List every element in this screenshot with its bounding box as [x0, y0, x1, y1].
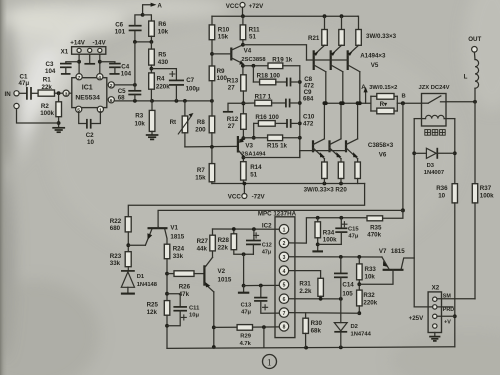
- IC2 pin 1: [279, 225, 288, 234]
- svg-text:R28: R28: [218, 237, 230, 244]
- wire R1 to pin3 node: [55, 91, 64, 95]
- resistor R20b: [338, 162, 344, 184]
- svg-text:R25: R25: [147, 301, 159, 308]
- transistor V6b: [330, 103, 342, 162]
- svg-text:C3858×3: C3858×3: [368, 142, 394, 149]
- wire DC-detect rail (V1 collector to node B column): [158, 210, 403, 227]
- svg-text:R19 1k: R19 1k: [272, 57, 293, 64]
- wire R16 left stub: [252, 123, 256, 139]
- svg-text:R31: R31: [299, 281, 311, 288]
- wire pin2 to C5/C6 column: [114, 83, 137, 87]
- svg-text:R4: R4: [157, 76, 165, 83]
- transistor V5b: [331, 45, 343, 103]
- capacitor C12: [246, 229, 272, 255]
- svg-text:V5: V5: [371, 62, 379, 69]
- svg-text:430: 430: [158, 59, 169, 66]
- capacitor C9: [286, 89, 314, 107]
- wire SM line to R37 column: [437, 298, 475, 300]
- svg-text:C15: C15: [348, 227, 359, 233]
- wire C1 to R1: [31, 92, 38, 94]
- stub bar left of R12: [223, 103, 244, 112]
- svg-text:D2: D2: [351, 324, 358, 330]
- svg-text:R21: R21: [308, 35, 320, 42]
- svg-text:33k: 33k: [173, 253, 184, 260]
- svg-text:10: 10: [438, 193, 445, 200]
- svg-text:C12: C12: [262, 242, 272, 248]
- svg-text:44k: 44k: [197, 246, 208, 253]
- svg-text:V3: V3: [245, 143, 253, 150]
- svg-text:C14: C14: [342, 281, 354, 288]
- svg-text:15k: 15k: [195, 174, 206, 181]
- ground below X2: [429, 333, 440, 341]
- label R20 3W/0.33x3: [304, 187, 348, 194]
- IC1 pin 7: [76, 74, 82, 81]
- svg-text:3W/0.15×2: 3W/0.15×2: [369, 85, 397, 91]
- wire overcurrent sense rail (R22 to -72V rail): [128, 184, 364, 217]
- svg-text:OUT: OUT: [468, 36, 481, 43]
- resistor R4: [149, 73, 171, 101]
- resistor R1: [38, 77, 54, 97]
- wire X1 pin3 to IC1 pin4 (-14V): [98, 54, 102, 74]
- relay switch contact: [422, 96, 447, 103]
- svg-text:5: 5: [283, 283, 286, 289]
- svg-text:R5: R5: [158, 52, 166, 59]
- svg-text:V6: V6: [379, 152, 387, 159]
- svg-text:R26: R26: [179, 284, 191, 291]
- capacitor C1: [19, 73, 32, 99]
- svg-text:-72V: -72V: [252, 193, 266, 200]
- svg-text:680: 680: [110, 225, 121, 232]
- capacitor C3: [45, 61, 79, 75]
- lower input terminal: [14, 103, 19, 108]
- wire IC2 pin6 line: [289, 297, 343, 301]
- svg-text:R24: R24: [173, 245, 185, 252]
- svg-text:22k: 22k: [42, 84, 53, 91]
- relay JZX DC24V box: [419, 85, 450, 126]
- svg-text:6: 6: [110, 98, 113, 104]
- IC2 pin 2: [279, 238, 288, 247]
- svg-text:R33: R33: [365, 266, 377, 273]
- svg-text:68k: 68k: [311, 327, 322, 334]
- resistor R26: [167, 271, 203, 298]
- wire IC2 pin1 line: [213, 227, 280, 231]
- wire IC2 pin4 line / R31 top: [289, 271, 321, 279]
- wire +72V rail: [212, 14, 358, 18]
- svg-text:10k: 10k: [365, 273, 376, 280]
- svg-text:12k: 12k: [147, 309, 158, 316]
- wire X1 pin1 to IC1 pin7 (+14V): [77, 54, 81, 74]
- svg-text:1015: 1015: [218, 277, 232, 284]
- svg-text:R32: R32: [363, 292, 375, 299]
- resistor R25: [147, 301, 170, 349]
- svg-text:51: 51: [250, 172, 257, 179]
- svg-text:470k: 470k: [367, 232, 381, 239]
- resistor R17: [243, 94, 286, 106]
- svg-text:220k: 220k: [363, 299, 377, 306]
- zener D2 1N4744: [334, 299, 371, 348]
- resistor R14: [241, 162, 263, 184]
- svg-text:R22: R22: [110, 218, 122, 225]
- OUT terminal: [468, 36, 481, 52]
- node A arrow on output rail: [361, 84, 397, 103]
- capacitor C2: [79, 112, 101, 146]
- svg-text:68: 68: [118, 95, 125, 102]
- capacitor C7: [169, 69, 200, 101]
- svg-text:IC1: IC1: [82, 85, 93, 92]
- svg-text:PRD: PRD: [443, 307, 454, 313]
- resistor R32: [357, 290, 378, 315]
- svg-text:R11: R11: [249, 26, 261, 33]
- IC IC2 uPC1237HA: [258, 210, 297, 337]
- svg-text:A: A: [361, 84, 366, 91]
- wire R* to node B and relay: [397, 93, 421, 105]
- svg-text:1: 1: [267, 358, 272, 368]
- ground below R3: [146, 135, 159, 139]
- wire C6/R6 bottom link: [133, 40, 153, 85]
- relay coil: [414, 115, 455, 118]
- resistor R3: [135, 101, 155, 135]
- resistor R29: [237, 325, 252, 348]
- svg-text:-14V: -14V: [93, 39, 107, 46]
- svg-text:R12: R12: [227, 116, 239, 123]
- svg-text:R1: R1: [43, 77, 51, 84]
- svg-text:2: 2: [283, 241, 286, 247]
- wire B column down to DC-sense rail: [383, 103, 405, 218]
- capacitor C14: [334, 257, 354, 299]
- diode D3 1N4007: [414, 148, 455, 176]
- transistor V6a C3858: [313, 103, 325, 162]
- svg-text:C7: C7: [186, 77, 194, 84]
- wire coil right column: [453, 119, 457, 184]
- resistor R10: [209, 16, 230, 66]
- resistor R27: [197, 229, 216, 253]
- svg-text:1N4148: 1N4148: [137, 282, 158, 288]
- resistor R19: [243, 57, 300, 69]
- svg-text:C10: C10: [303, 113, 315, 120]
- svg-text:JZX DC24V: JZX DC24V: [419, 85, 450, 91]
- transistor V5a A1494: [314, 45, 326, 103]
- svg-text:R37: R37: [480, 185, 492, 192]
- svg-text:8: 8: [283, 325, 286, 331]
- svg-text:R15 1k: R15 1k: [267, 142, 288, 149]
- wire R5-R4 junction: [150, 65, 177, 73]
- svg-text:472: 472: [303, 121, 314, 128]
- resistor R24: [164, 244, 184, 300]
- svg-text:+72V: +72V: [249, 3, 264, 10]
- svg-text:3W/0.33×3: 3W/0.33×3: [366, 33, 397, 40]
- resistor R16: [254, 114, 287, 126]
- svg-text:4: 4: [98, 75, 101, 81]
- svg-text:A: A: [157, 3, 162, 10]
- resistor R35: [367, 216, 383, 239]
- svg-text:B: B: [402, 93, 406, 99]
- svg-text:47μ: 47μ: [348, 233, 358, 239]
- svg-text:R23: R23: [110, 253, 122, 260]
- wire IC2 pin5 line: [244, 284, 280, 288]
- IC2 pin 7: [279, 308, 288, 317]
- transistor V1 1815: [128, 224, 184, 245]
- svg-text:22k: 22k: [218, 245, 229, 252]
- wire R13-R12 junction node: [241, 91, 245, 114]
- capacitor C6: [115, 15, 143, 42]
- svg-text:D3: D3: [427, 163, 435, 169]
- IC2 pin 8: [279, 322, 288, 331]
- resistor R8: [195, 116, 214, 147]
- page number symbol: [263, 355, 277, 369]
- resistor R23: [110, 252, 131, 271]
- wire +V line to R36 column: [437, 315, 455, 317]
- svg-text:V1: V1: [170, 224, 178, 231]
- svg-text:33k: 33k: [110, 260, 121, 267]
- label relay (CJK): [425, 130, 445, 136]
- wire IC2 pin8 line / R29: [214, 325, 280, 347]
- svg-text:IC2: IC2: [262, 222, 272, 229]
- svg-text:3: 3: [283, 255, 286, 261]
- resistor R22: [110, 217, 131, 252]
- svg-text:R13: R13: [227, 77, 239, 84]
- svg-text:105: 105: [342, 290, 353, 297]
- resistor R18: [253, 66, 286, 85]
- svg-text:10μ: 10μ: [189, 313, 199, 319]
- wire feedback bus pin6: [114, 99, 214, 103]
- svg-text:27: 27: [228, 123, 235, 130]
- svg-text:C2: C2: [86, 132, 94, 139]
- resistor R7: [195, 147, 214, 184]
- svg-text:R18 100: R18 100: [257, 73, 281, 80]
- svg-text:101: 101: [115, 28, 126, 35]
- transistor V5c: [348, 45, 360, 103]
- resistor R15: [243, 135, 299, 149]
- svg-text:C11: C11: [189, 305, 200, 311]
- IC1 pin 6: [108, 97, 114, 104]
- svg-text:R6: R6: [158, 21, 166, 28]
- wire relay contact to L column: [446, 100, 477, 104]
- svg-text:3W/0.33×3 R20: 3W/0.33×3 R20: [304, 187, 348, 194]
- svg-text:R16 100: R16 100: [255, 114, 279, 121]
- ground below R2: [52, 128, 65, 132]
- svg-text:4.7k: 4.7k: [240, 341, 252, 347]
- wire V6 base rail: [300, 150, 346, 152]
- svg-text:IN: IN: [5, 91, 12, 98]
- wire V4 collector to output base rail: [243, 45, 307, 60]
- resistor R33: [357, 257, 377, 290]
- svg-text:47μ: 47μ: [262, 249, 271, 255]
- wire C12/R28 ground column: [242, 254, 246, 287]
- svg-text:R2: R2: [41, 103, 49, 110]
- svg-text:NE5534: NE5534: [75, 95, 100, 102]
- wire L column down to R37: [474, 102, 476, 184]
- IN terminal: [5, 91, 20, 98]
- svg-text:X2: X2: [432, 284, 440, 291]
- connector X2: [428, 284, 454, 332]
- IC2 pin 6: [279, 294, 288, 303]
- capacitor C11: [167, 294, 200, 326]
- resistor R* parallel pair: [371, 94, 397, 114]
- svg-text:R34: R34: [323, 230, 335, 237]
- wire IC2 pin3 line: [289, 255, 382, 259]
- resistor R34: [315, 218, 337, 251]
- svg-text:MPC 1237HA: MPC 1237HA: [258, 210, 297, 217]
- node A arrow top: [141, 3, 163, 17]
- VCC +72V terminal: [226, 2, 264, 16]
- wire +V column from coil left: [412, 119, 416, 307]
- svg-text:220k: 220k: [156, 83, 170, 90]
- svg-text:100μ: 100μ: [186, 86, 200, 93]
- transistor V2 1015: [204, 251, 231, 292]
- wire V5 base rail: [307, 59, 348, 61]
- transistor V7 1815: [359, 248, 414, 284]
- resistor R31: [299, 278, 323, 299]
- ground X1 middle pin: [84, 54, 95, 64]
- ground below R34: [312, 250, 323, 252]
- capacitor C5: [118, 85, 142, 102]
- svg-text:2SA1494: 2SA1494: [241, 151, 266, 157]
- svg-text:200: 200: [195, 127, 206, 134]
- wire IN to C1: [19, 92, 26, 94]
- svg-text:27: 27: [228, 85, 235, 92]
- svg-text:4: 4: [283, 269, 286, 275]
- svg-text:R35: R35: [370, 225, 382, 232]
- wire +25V feed to X2: [409, 307, 433, 322]
- capacitor C8: [287, 76, 315, 90]
- svg-text:V4: V4: [244, 48, 252, 55]
- capacitor C15: [318, 218, 360, 245]
- wire Rt/R8 bottom junction to V3 base: [185, 145, 237, 149]
- svg-text:R10: R10: [218, 26, 230, 33]
- IC1 pin 1: [97, 106, 103, 113]
- potentiometer Rt: [170, 101, 194, 147]
- svg-text:104: 104: [45, 68, 56, 75]
- resistor R36: [436, 184, 457, 347]
- svg-text:R8: R8: [197, 119, 205, 126]
- svg-text:100k: 100k: [40, 110, 54, 117]
- svg-text:2.2k: 2.2k: [299, 288, 312, 295]
- svg-text:R36: R36: [436, 185, 448, 192]
- wire V2 emitter column: [212, 292, 216, 349]
- svg-text:1N4744: 1N4744: [351, 331, 372, 337]
- VCC -72V terminal: [228, 184, 266, 201]
- svg-text:R14: R14: [250, 164, 262, 171]
- svg-text:+14V: +14V: [70, 39, 85, 46]
- IC1 pin 2: [108, 82, 114, 89]
- svg-text:7: 7: [78, 75, 81, 81]
- resistor R37: [472, 184, 494, 299]
- capacitor C13: [241, 286, 280, 316]
- resistor R6: [143, 15, 169, 42]
- svg-text:X1: X1: [61, 48, 69, 55]
- svg-text:7: 7: [283, 311, 286, 317]
- resistor R13: [227, 75, 246, 92]
- svg-text:A1494×3: A1494×3: [360, 53, 386, 60]
- resistor R30: [303, 313, 323, 348]
- svg-text:Rt: Rt: [170, 119, 177, 126]
- wire vertical RC bus: [298, 66, 302, 158]
- resistor R20a: [322, 162, 328, 184]
- wire V3 collector to lower base rail: [243, 151, 299, 158]
- ground stub on pin5 line: [238, 286, 249, 293]
- resistor R21c 3W/0.33x3: [356, 16, 397, 45]
- wire PRD stub: [437, 306, 453, 308]
- svg-text:1: 1: [283, 227, 286, 233]
- svg-text:6: 6: [283, 297, 286, 303]
- svg-text:47μ: 47μ: [241, 310, 251, 316]
- inductor L: [464, 52, 479, 102]
- svg-text:+25V: +25V: [409, 315, 424, 322]
- svg-text:+V: +V: [444, 319, 451, 325]
- label V5 A1494x3: [360, 53, 386, 69]
- svg-text:10k: 10k: [135, 121, 146, 128]
- IC2 pin 4: [279, 266, 288, 275]
- svg-text:R9: R9: [217, 68, 225, 75]
- wire V4 emitter node: [241, 64, 245, 75]
- diode D1 1N4148: [121, 271, 158, 294]
- resistor R12: [227, 114, 246, 138]
- svg-text:C6: C6: [115, 21, 123, 28]
- wire IC2 pin7 line: [289, 312, 360, 315]
- transistor V4 2SC3858: [212, 43, 266, 65]
- resistor R28: [218, 229, 254, 256]
- wire output mid rail: [323, 101, 371, 105]
- svg-text:1815: 1815: [170, 233, 184, 240]
- op-amp IC1 NE5534: [72, 78, 107, 108]
- label V6 C3858x3: [368, 142, 394, 159]
- svg-text:100k: 100k: [480, 193, 494, 200]
- svg-text:2SC3858: 2SC3858: [241, 57, 266, 63]
- capacitor C4: [100, 62, 132, 78]
- svg-text:C4: C4: [121, 64, 129, 71]
- svg-text:R27: R27: [197, 238, 209, 245]
- IC1 pin 3: [63, 90, 72, 97]
- wire -72V rail: [212, 182, 365, 186]
- svg-text:3: 3: [65, 91, 68, 97]
- IC2 pin 3: [279, 252, 288, 261]
- svg-text:L: L: [464, 74, 468, 81]
- connector X1: [61, 39, 107, 55]
- svg-text:R3: R3: [135, 113, 143, 120]
- IC1 pin 4: [97, 74, 103, 81]
- svg-text:100k: 100k: [323, 237, 337, 244]
- svg-text:C3: C3: [46, 61, 54, 68]
- resistor R5: [149, 49, 169, 66]
- transistor V3 2SA1494: [238, 136, 266, 162]
- transistor V6c: [346, 103, 358, 162]
- svg-text:684: 684: [303, 96, 314, 103]
- svg-text:15k: 15k: [218, 34, 229, 41]
- svg-text:10k: 10k: [158, 29, 169, 36]
- svg-text:R17 1: R17 1: [255, 94, 272, 101]
- svg-text:2: 2: [110, 83, 113, 89]
- svg-text:104: 104: [121, 71, 132, 78]
- svg-text:V2: V2: [218, 268, 226, 275]
- svg-text:10: 10: [87, 139, 94, 146]
- svg-text:R30: R30: [311, 320, 323, 327]
- capacitor C10: [287, 113, 315, 127]
- wire bottom common rail: [167, 346, 455, 350]
- wire IC2 pin2 path to timing network: [289, 216, 367, 243]
- svg-text:C13: C13: [241, 302, 252, 308]
- resistor R21b: [339, 16, 345, 45]
- resistor R9: [209, 66, 227, 116]
- svg-text:D1: D1: [137, 274, 145, 280]
- resistor R2: [40, 93, 61, 127]
- svg-text:R▾: R▾: [380, 101, 388, 108]
- resistor R21a (0.33 x3 top): [308, 16, 327, 45]
- resistor R20c: [355, 162, 361, 184]
- svg-text:V7: V7: [379, 248, 387, 255]
- resistor R11: [240, 16, 260, 45]
- wire lower terminal to R2 foot: [17, 109, 59, 123]
- IC1 pin 5: [76, 106, 82, 113]
